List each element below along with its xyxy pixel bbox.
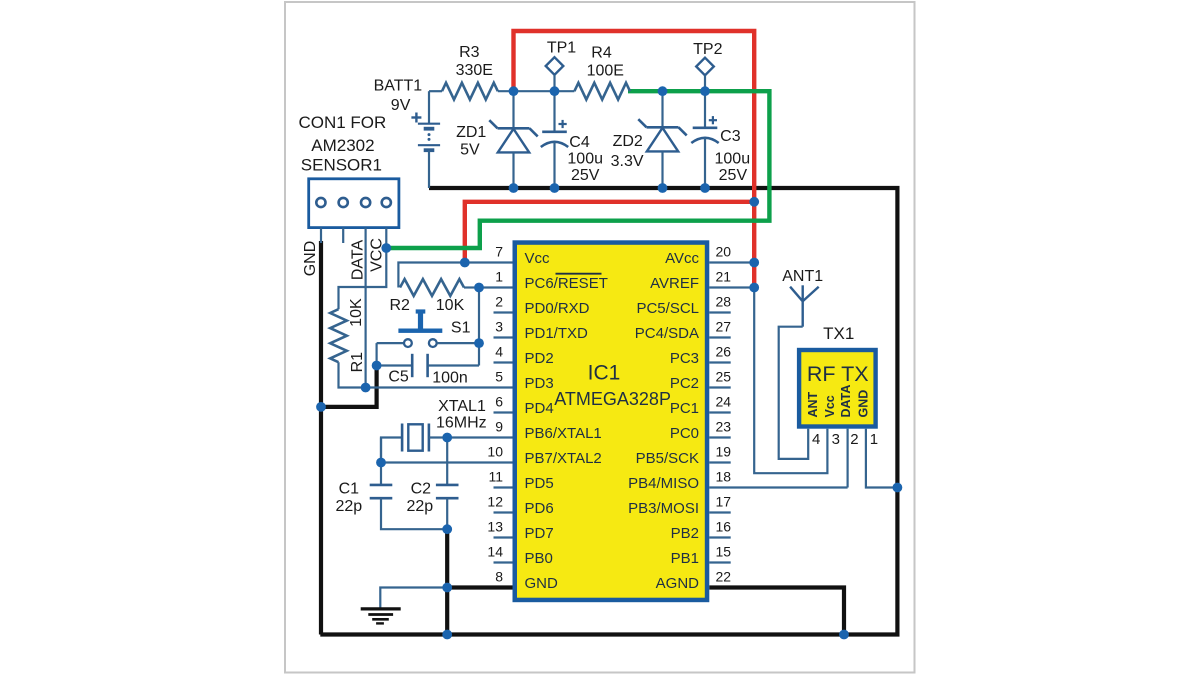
wire R2 to pin1 node — [464, 286, 479, 288]
node TX1 GND — [893, 483, 903, 493]
svg-text:TP1: TP1 — [547, 40, 576, 57]
svg-text:ANT1: ANT1 — [782, 268, 823, 285]
svg-text:PB0: PB0 — [525, 550, 553, 567]
wire CON1 DATA line — [365, 228, 367, 388]
node R2/pin1 — [474, 283, 484, 293]
svg-text:25V: 25V — [571, 167, 600, 184]
label 5V — [460, 142, 480, 159]
label TP2 — [693, 41, 722, 58]
node ZD1 bottom — [509, 183, 519, 193]
wire S1 left down to C5 — [376, 343, 378, 365]
capacitor C2 — [436, 438, 459, 530]
wire red 5V net ZD1 top to AVcc/AVREF — [514, 31, 755, 288]
svg-text:PB2: PB2 — [671, 525, 699, 542]
border frame — [285, 2, 915, 673]
label R3 — [459, 44, 480, 61]
svg-text:28: 28 — [716, 293, 732, 309]
svg-text:VCC: VCC — [369, 238, 386, 272]
IC pin row 4/26 PD2 / PC3 — [494, 343, 732, 367]
svg-text:TX1: TX1 — [823, 324, 854, 343]
label C4 — [569, 134, 590, 151]
wire center GND vertical C1/C2 to bottom bus — [445, 529, 449, 634]
svg-text:PB3/MOSI: PB3/MOSI — [628, 500, 699, 517]
svg-text:PC5/SCL: PC5/SCL — [636, 300, 699, 317]
svg-text:RF TX: RF TX — [807, 362, 869, 386]
label RF TX — [807, 362, 869, 386]
wire CON1 pin1 GND stub — [320, 228, 322, 243]
wire IC PC6 pin1 — [479, 286, 513, 288]
label TX1 GND rotated — [856, 390, 870, 418]
svg-text:AM2302: AM2302 — [311, 136, 374, 155]
node AGND bottom bus — [839, 630, 849, 640]
svg-text:Vcc: Vcc — [525, 250, 551, 267]
wire antenna to TX1 ANT pin4 — [779, 327, 809, 459]
wire IC PB6 pin9 — [447, 436, 512, 438]
resistor R3 — [442, 83, 498, 100]
svg-text:25V: 25V — [719, 167, 748, 184]
svg-text:4: 4 — [812, 431, 820, 448]
svg-text:AGND: AGND — [656, 575, 700, 592]
node AVcc pin20 — [749, 258, 759, 268]
svg-text:5: 5 — [495, 368, 503, 384]
label TX1 DATA rotated — [839, 385, 853, 418]
svg-text:PD5: PD5 — [525, 475, 554, 492]
svg-text:5V: 5V — [460, 142, 480, 159]
node S1 right — [474, 338, 484, 348]
label BATT1 — [374, 78, 423, 95]
label C2 22p — [406, 498, 433, 515]
label ATMEGA328P — [554, 389, 671, 409]
svg-text:PD2: PD2 — [525, 350, 554, 367]
svg-text:25: 25 — [716, 368, 732, 384]
svg-text:10K: 10K — [436, 297, 465, 314]
svg-text:9: 9 — [495, 418, 503, 434]
node C1/C2 bottom — [442, 524, 452, 534]
wire battery to R3 — [429, 90, 442, 92]
svg-text:R1: R1 — [349, 352, 366, 373]
IC pin row 5/25 PD3 / PC2 — [495, 368, 731, 392]
svg-text:PC3: PC3 — [670, 350, 699, 367]
testpoint TP2 — [696, 58, 714, 91]
node IC Vcc pin7 — [460, 258, 470, 268]
svg-text:12: 12 — [487, 493, 503, 509]
zener diode ZD2 — [638, 91, 686, 188]
label TX1 Vcc rotated — [823, 395, 837, 417]
svg-text:100E: 100E — [587, 63, 624, 80]
label SENSOR1 — [301, 156, 382, 175]
svg-text:Vcc: Vcc — [823, 395, 837, 417]
label C4 25V — [571, 167, 600, 184]
svg-text:3: 3 — [495, 318, 503, 334]
svg-text:16MHz: 16MHz — [436, 415, 487, 432]
label TP1 — [547, 40, 576, 57]
wire IC Vcc pin7 — [465, 261, 513, 263]
transistor? no; module TX1 RF TX box — [799, 350, 876, 427]
label R4 — [591, 45, 612, 62]
svg-text:3: 3 — [832, 431, 840, 448]
node XTAL/C1/pin10 — [376, 458, 386, 468]
svg-text:PD4: PD4 — [525, 400, 554, 417]
wire left GND vertical from CON1 to bottom bus — [319, 241, 323, 635]
label 330E — [456, 62, 493, 79]
node green VCC — [381, 243, 391, 253]
svg-text:16: 16 — [716, 518, 732, 534]
wire IC PB7 pin10 — [381, 461, 513, 463]
svg-text:21: 21 — [716, 268, 732, 284]
svg-text:R3: R3 — [459, 44, 480, 61]
svg-text:ATMEGA328P: ATMEGA328P — [554, 389, 671, 409]
capacitor C5 — [377, 354, 479, 377]
wire IC PB4/MISO pin18 to TX1 DATA — [709, 486, 847, 488]
svg-text:22p: 22p — [406, 498, 433, 515]
node AVREF pin21 — [749, 283, 759, 293]
svg-text:PB4/MISO: PB4/MISO — [628, 475, 699, 492]
svg-text:ZD2: ZD2 — [613, 133, 643, 150]
label TX1 pin2 — [850, 431, 858, 448]
label DATA rotated — [349, 240, 366, 281]
wire CON1 pin2 stub — [342, 228, 344, 243]
IC pin row 3/27 PD1/TXD / PC4/SDA — [494, 318, 732, 342]
svg-text:C5: C5 — [388, 368, 409, 385]
svg-text:22p: 22p — [335, 498, 362, 515]
svg-text:SENSOR1: SENSOR1 — [301, 156, 382, 175]
svg-text:PD6: PD6 — [525, 500, 554, 517]
IC pin row 7/20 Vcc / AVcc — [495, 243, 731, 267]
IC pin row 13/16 PD7 / PB2 — [487, 518, 731, 542]
label R2 10K — [436, 297, 465, 314]
svg-text:10: 10 — [487, 443, 503, 459]
svg-text:GND: GND — [302, 241, 319, 277]
node C4/TP1 top — [550, 86, 560, 96]
svg-text:R2: R2 — [389, 297, 410, 314]
label R2 — [389, 297, 410, 314]
wire pin1 node down to S1/C5 — [478, 288, 480, 366]
svg-text:9V: 9V — [391, 97, 411, 114]
wire pin7 node to R2 — [398, 263, 464, 288]
label GND rotated — [302, 241, 319, 277]
svg-text:PC2: PC2 — [670, 375, 699, 392]
label C2 — [411, 481, 432, 498]
svg-text:11: 11 — [488, 468, 503, 484]
svg-text:DATA: DATA — [349, 240, 366, 281]
svg-text:100u: 100u — [567, 151, 603, 168]
node C4 bottom — [550, 183, 560, 193]
op-amp U? none; IC1 ATMEGA328P box — [515, 243, 707, 600]
label TX1 pin4 — [812, 431, 820, 448]
wire TX1 GND pin1 to GND line — [866, 429, 898, 488]
svg-text:GND: GND — [525, 575, 559, 592]
wire C5/S1 ground branch — [321, 365, 377, 407]
svg-text:PD3: PD3 — [525, 375, 554, 392]
node C3 bottom — [700, 183, 710, 193]
wire top GND bus from battery to right side and down — [429, 188, 897, 635]
svg-text:PB6/XTAL1: PB6/XTAL1 — [525, 425, 602, 442]
svg-text:TP2: TP2 — [693, 41, 722, 58]
label CON1 FOR — [298, 113, 386, 132]
label C5 100n — [432, 370, 468, 387]
svg-text:24: 24 — [716, 393, 732, 409]
node pin8 GND — [442, 583, 452, 593]
label C5 — [388, 368, 409, 385]
label 16MHz — [436, 415, 487, 432]
node ZD1 top — [509, 86, 519, 96]
svg-text:PC6/RESET: PC6/RESET — [525, 275, 608, 292]
node DATA/PD3 — [361, 383, 371, 393]
label VCC rotated — [369, 238, 386, 272]
label AM2302 — [311, 136, 374, 155]
switch S1 — [377, 309, 479, 347]
svg-text:ZD1: ZD1 — [456, 124, 486, 141]
svg-text:PC0: PC0 — [670, 425, 699, 442]
wire IC AVREF pin21 — [709, 286, 754, 288]
node C3/TP2 top — [700, 86, 710, 96]
label ANT1 — [782, 268, 823, 285]
wire R1 bottom to DATA node — [339, 362, 366, 387]
svg-text:14: 14 — [487, 543, 503, 559]
svg-text:2: 2 — [495, 293, 503, 309]
node GND left — [316, 402, 326, 412]
wire IC AVcc pin20 — [709, 261, 754, 263]
label IC1 — [588, 361, 621, 384]
resistor R2 — [400, 279, 464, 296]
capacitor C1 — [370, 438, 448, 530]
label C4 100u — [567, 151, 603, 168]
IC pin row 9/23 PB6/XTAL1 / PC0 — [495, 418, 731, 442]
wire TX1 DATA pin2 down — [846, 429, 848, 488]
svg-text:AVREF: AVREF — [650, 275, 699, 292]
svg-text:PC1: PC1 — [670, 400, 699, 417]
wire IC pin8 GND to center vertical — [447, 585, 512, 589]
wire green 3.3V net R4 to CON1 VCC — [386, 91, 769, 248]
label C1 22p — [335, 498, 362, 515]
svg-text:PD1/TXD: PD1/TXD — [525, 325, 589, 342]
label XTAL1 — [438, 398, 486, 415]
svg-text:XTAL1: XTAL1 — [438, 398, 486, 415]
IC pin row 10/19 PB7/XTAL2 / PB5/SCK — [487, 443, 731, 467]
svg-text:PD0/RXD: PD0/RXD — [525, 300, 590, 317]
capacitor C3 — [691, 91, 718, 188]
svg-text:PC4/SDA: PC4/SDA — [635, 325, 699, 342]
wire R3 to R4 rail — [498, 90, 575, 92]
svg-text:13: 13 — [487, 518, 503, 534]
wire crystal left to pin10 node — [381, 438, 402, 463]
label C1 — [339, 481, 360, 498]
label ZD1 — [456, 124, 486, 141]
connector CON1 — [309, 179, 399, 228]
svg-text:18: 18 — [716, 468, 732, 484]
IC pin row 1/21 PC6/RESET / AVREF — [495, 268, 731, 292]
svg-text:PB7/XTAL2: PB7/XTAL2 — [525, 450, 602, 467]
IC pin row 2/28 PD0/RXD / PC5/SCL — [494, 293, 732, 317]
label ZD2 — [613, 133, 643, 150]
svg-text:20: 20 — [716, 243, 732, 259]
svg-text:PD7: PD7 — [525, 525, 554, 542]
zener diode ZD1 — [489, 91, 537, 188]
IC pin row 6/24 PD4 / PC1 — [494, 393, 732, 417]
label TX1 ANT rotated — [806, 391, 820, 417]
wire CON1 VCC line to R1 — [339, 228, 387, 310]
label C3 25V — [719, 167, 748, 184]
IC pin row 14/15 PB0 / PB1 — [487, 543, 731, 567]
wire AVREF node down to TX1 Vcc — [754, 288, 827, 474]
svg-text:AVcc: AVcc — [665, 250, 699, 267]
node red branch — [749, 197, 759, 207]
svg-text:ANT: ANT — [806, 391, 820, 417]
svg-text:26: 26 — [716, 343, 732, 359]
IC pin row 12/17 PD6 / PB3/MOSI — [487, 493, 731, 517]
node C5 left — [372, 361, 382, 371]
svg-text:17: 17 — [716, 493, 732, 509]
node XTAL/C2/pin9 — [442, 433, 452, 443]
svg-text:C3: C3 — [720, 128, 741, 145]
svg-text:R4: R4 — [591, 45, 612, 62]
label C3 — [720, 128, 741, 145]
label R1 rotated — [349, 352, 366, 373]
svg-text:PB5/SCK: PB5/SCK — [636, 450, 699, 467]
wire bottom GND bus — [320, 632, 899, 636]
svg-text:22: 22 — [716, 568, 732, 584]
wire pin8 node to ground symbol — [380, 588, 447, 609]
label C3 100u — [715, 151, 751, 168]
label 9V — [391, 97, 411, 114]
label S1 — [451, 319, 471, 336]
svg-text:4: 4 — [495, 343, 503, 359]
svg-text:IC1: IC1 — [588, 361, 621, 384]
svg-text:2: 2 — [850, 431, 858, 448]
svg-text:1: 1 — [870, 431, 878, 448]
IC pin row 8/22 GND / AGND — [495, 568, 731, 592]
svg-text:7: 7 — [495, 243, 503, 259]
svg-text:100u: 100u — [715, 151, 751, 168]
node center bottom bus — [442, 630, 452, 640]
ground — [361, 609, 401, 624]
label R1 10K rotated — [348, 298, 365, 327]
svg-text:C2: C2 — [411, 481, 432, 498]
node ZD2 top — [658, 86, 668, 96]
svg-text:S1: S1 — [451, 319, 471, 336]
svg-text:27: 27 — [716, 318, 732, 334]
svg-text:CON1 FOR: CON1 FOR — [298, 113, 386, 132]
svg-text:C4: C4 — [569, 134, 590, 151]
svg-text:23: 23 — [716, 418, 732, 434]
svg-text:3.3V: 3.3V — [611, 153, 644, 170]
capacitor C4 — [541, 91, 568, 188]
svg-text:GND: GND — [856, 390, 870, 418]
testpoint TP1 — [546, 57, 564, 91]
label TX1 pin1 — [870, 431, 878, 448]
svg-text:100n: 100n — [432, 370, 468, 387]
svg-text:10K: 10K — [348, 298, 365, 327]
battery BATT1 9V — [418, 91, 440, 188]
svg-text:C1: C1 — [339, 481, 360, 498]
svg-text:330E: 330E — [456, 62, 493, 79]
svg-text:8: 8 — [495, 568, 503, 584]
label TX1 — [823, 324, 854, 343]
IC pin row 11/18 PD5 / PB4/MISO — [488, 468, 731, 492]
label 3.3V — [611, 153, 644, 170]
node ZD2 bottom — [658, 183, 668, 193]
battery plus sign — [411, 113, 421, 123]
wire red branch to IC Vcc pin 7 — [465, 202, 754, 263]
label 100E — [587, 63, 624, 80]
svg-text:DATA: DATA — [839, 385, 853, 418]
label TX1 pin3 — [832, 431, 840, 448]
wire AGND pin22 to bottom bus — [709, 588, 844, 635]
svg-text:19: 19 — [716, 443, 732, 459]
svg-text:PB1: PB1 — [671, 550, 699, 567]
svg-text:BATT1: BATT1 — [374, 78, 423, 95]
resistor R4 — [574, 83, 630, 100]
wire DATA to IC PD3 pin5 — [366, 386, 513, 388]
svg-text:15: 15 — [716, 543, 732, 559]
antenna ANT1 — [790, 285, 819, 326]
resistor R1 — [330, 309, 347, 362]
svg-text:6: 6 — [495, 393, 503, 409]
crystal XTAL1 — [402, 424, 447, 452]
svg-text:1: 1 — [495, 268, 503, 284]
